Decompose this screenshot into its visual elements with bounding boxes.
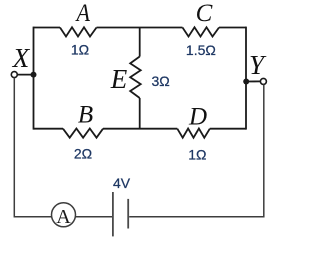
wire middle bottom segment — [139, 98, 141, 129]
wire middle top segment — [139, 28, 141, 57]
wire right edge of box — [245, 27, 247, 130]
junction node at X — [31, 72, 37, 78]
resistor B — [63, 129, 103, 138]
junction node at Y — [243, 79, 249, 85]
terminal Y — [260, 78, 266, 84]
svg-text:1.5Ω: 1.5Ω — [186, 42, 216, 58]
wire bottom-left segment — [34, 128, 64, 130]
wire X down to bottom — [14, 78, 51, 217]
svg-text:4V: 4V — [113, 175, 131, 191]
wire bottom-right segment — [210, 128, 246, 130]
svg-text:D: D — [188, 104, 207, 131]
wire top-right segment — [219, 27, 246, 29]
svg-text:B: B — [78, 101, 93, 128]
wire bottom-middle segment — [103, 128, 177, 130]
wire battery to right side and up to Y — [129, 84, 264, 216]
wire top-middle segment — [97, 27, 183, 29]
svg-text:E: E — [110, 64, 128, 94]
resistor E — [130, 57, 141, 99]
wire top-left segment — [34, 27, 61, 29]
wire junction to Y — [246, 80, 260, 82]
wire ammeter to battery — [75, 216, 112, 218]
svg-text:A: A — [75, 0, 91, 27]
battery long plate — [112, 192, 114, 236]
ammeter A — [52, 203, 76, 227]
battery short plate — [127, 199, 129, 229]
svg-text:2Ω: 2Ω — [74, 146, 92, 162]
svg-text:Y: Y — [249, 50, 267, 80]
svg-text:3Ω: 3Ω — [151, 73, 169, 89]
svg-text:C: C — [196, 0, 213, 27]
resistor C — [183, 27, 220, 36]
svg-text:X: X — [12, 43, 31, 73]
resistor D — [177, 129, 210, 138]
terminal X — [11, 72, 17, 78]
svg-text:1Ω: 1Ω — [188, 146, 206, 162]
wire X to junction — [17, 74, 33, 76]
svg-text:A: A — [56, 206, 71, 228]
resistor A — [60, 27, 97, 36]
svg-text:1Ω: 1Ω — [71, 41, 89, 57]
wire left edge of box — [33, 27, 35, 130]
